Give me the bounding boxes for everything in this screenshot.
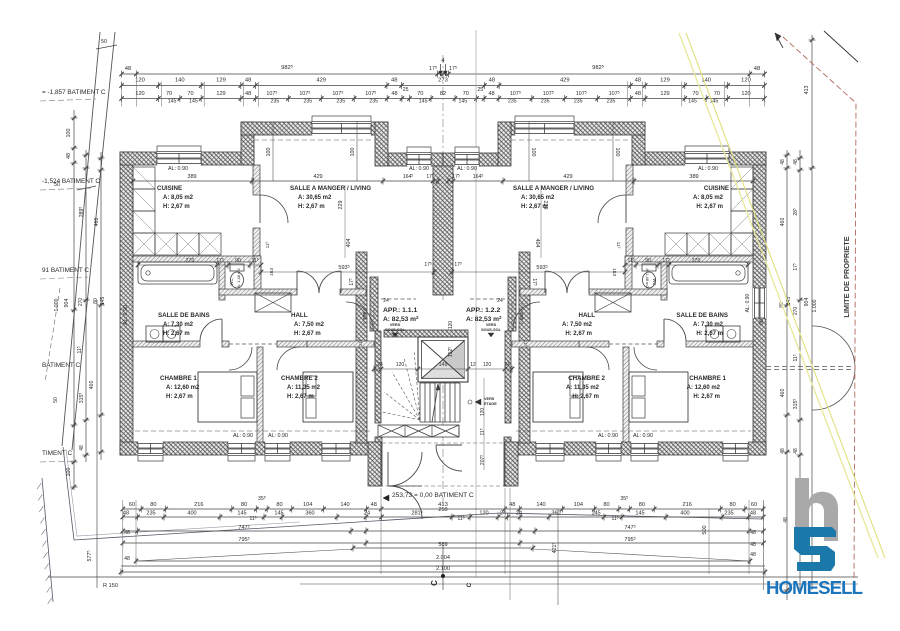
svg-text:904: 904 (64, 299, 70, 308)
living top step wall left (241, 122, 254, 165)
svg-text:145: 145 (591, 511, 600, 517)
bottom dim row 4 - 795.5 (123, 542, 763, 544)
svg-text:120: 120 (448, 321, 454, 330)
svg-text:229: 229 (338, 201, 344, 210)
svg-text:400: 400 (187, 511, 196, 517)
svg-text:24: 24 (516, 511, 522, 517)
svg-text:460: 460 (780, 389, 786, 398)
svg-text:129: 129 (660, 78, 670, 84)
svg-text:70: 70 (714, 91, 720, 97)
living ceiling dashed line left (254, 139, 375, 141)
svg-text:24: 24 (497, 298, 503, 304)
kitchen counter bottom row left (133, 233, 155, 255)
svg-text:48: 48 (783, 517, 789, 523)
svg-text:A: 11,35 m2: A: 11,35 m2 (287, 385, 321, 391)
svg-text:129: 129 (660, 91, 669, 97)
bottom extension verticals (122, 500, 124, 574)
centre axis dash-dot line (442, 55, 444, 300)
svg-text:25: 25 (403, 87, 409, 93)
svg-text:120: 120 (135, 91, 144, 97)
svg-text:AL: 0.90: AL: 0.90 (168, 166, 188, 172)
svg-text:235: 235 (271, 99, 280, 105)
svg-text:SOUS-SOL: SOUS-SOL (481, 328, 502, 332)
svg-text:70: 70 (166, 91, 172, 97)
svg-text:24: 24 (364, 511, 370, 517)
svg-text:= -1,857 BATIMENT C: = -1,857 BATIMENT C (42, 89, 106, 96)
svg-text:229: 229 (542, 201, 548, 210)
svg-text:H: 2,67 m: H: 2,67 m (565, 331, 592, 337)
left vertical dim chain outer (73, 110, 75, 490)
svg-text:145: 145 (688, 99, 697, 105)
dimension row 3 (122, 98, 765, 100)
svg-text:216: 216 (683, 502, 692, 508)
svg-text:WC: WC (229, 279, 234, 286)
kitchen counter bottom row right (731, 233, 753, 255)
living ceiling dashed line right (511, 139, 632, 141)
svg-text:145: 145 (419, 99, 428, 105)
svg-text:48: 48 (124, 530, 130, 536)
stair treads (419, 383, 421, 422)
wc left (230, 264, 244, 271)
bed chambre 1 left (198, 372, 257, 422)
cuisine-living partition left with door (253, 165, 260, 195)
vestibule entrance door arc outside (389, 486, 422, 519)
svg-text:ETAGE: ETAGE (484, 402, 497, 406)
svg-text:VERS: VERS (484, 397, 495, 401)
stair walking line with arrow (432, 384, 438, 422)
svg-text:48: 48 (793, 448, 799, 454)
svg-text:48: 48 (125, 66, 131, 72)
svg-text:120: 120 (135, 78, 145, 84)
partition wc/hall vertical (254, 256, 261, 294)
svg-text:120: 120 (396, 362, 405, 368)
living double door arcs left (297, 271, 319, 293)
svg-text:50: 50 (53, 397, 59, 403)
living top step wall right (632, 122, 645, 165)
section C bottom marker (442, 545, 444, 590)
svg-text:216: 216 (194, 502, 203, 508)
svg-text:163: 163 (611, 268, 617, 276)
svg-text:A: 7,30 m2: A: 7,30 m2 (693, 322, 724, 328)
svg-text:120: 120 (479, 511, 488, 517)
svg-text:270: 270 (793, 307, 799, 316)
living top wall right (574, 122, 645, 135)
svg-text:48: 48 (780, 448, 786, 454)
svg-text:235: 235 (146, 511, 155, 517)
svg-text:145: 145 (274, 511, 283, 517)
exterior wall right side (753, 152, 766, 455)
bath door arc left (200, 319, 222, 341)
hall dim row 593 (261, 271, 437, 273)
wc right (642, 264, 656, 271)
svg-text:104: 104 (574, 502, 583, 508)
cuisine-living partition right with door (626, 165, 633, 195)
partition hall/living wall with door opening (219, 289, 297, 295)
svg-text:70: 70 (463, 91, 469, 97)
svg-text:400: 400 (680, 511, 689, 517)
stair dashed flight lines (382, 412, 420, 420)
svg-text:235: 235 (303, 99, 312, 105)
svg-text:404: 404 (534, 239, 540, 248)
svg-text:413: 413 (804, 86, 810, 95)
svg-text:A: 30,65 m2: A: 30,65 m2 (298, 195, 332, 201)
partition chambres top wall (133, 341, 200, 347)
svg-text:104: 104 (303, 502, 312, 508)
right vertical dim line outer 413 (811, 35, 813, 590)
logo h glyph (795, 478, 838, 541)
left bottom vertical line (96, 300, 98, 588)
svg-text:AL: 0.90: AL: 0.90 (633, 433, 653, 439)
svg-text:140: 140 (340, 502, 349, 508)
svg-text:120: 120 (741, 91, 750, 97)
svg-text:80: 80 (150, 502, 156, 508)
svg-text:HOMESELL: HOMESELL (766, 577, 863, 598)
svg-text:A: 82,53 m2: A: 82,53 m2 (466, 315, 502, 323)
svg-text:H: 2,67 m: H: 2,67 m (163, 331, 190, 337)
bottom wall right apartment (748, 442, 766, 455)
svg-text:270: 270 (186, 258, 195, 264)
svg-text:235: 235 (724, 511, 733, 517)
washbasins left (146, 326, 163, 342)
extension lines top dims (121, 82, 123, 107)
stair dim row (374, 368, 512, 370)
svg-text:235: 235 (541, 99, 550, 105)
svg-text:CUISINE: CUISINE (157, 185, 182, 192)
kitchen top wall left (120, 152, 157, 165)
elevator shaft (418, 337, 468, 382)
svg-text:270: 270 (692, 258, 701, 264)
wall above elevator (384, 330, 468, 337)
svg-text:904: 904 (804, 298, 810, 307)
svg-text:24: 24 (504, 362, 510, 368)
svg-text:48: 48 (124, 556, 130, 562)
svg-text:91 BATIMENT C: 91 BATIMENT C (42, 267, 89, 274)
svg-text:R 150: R 150 (103, 583, 118, 589)
svg-text:APP.: 1.1.1: APP.: 1.1.1 (383, 307, 417, 314)
svg-text:1.000: 1.000 (812, 299, 818, 312)
right vertical dim chain inner (786, 150, 788, 600)
centre notch step wall right (498, 122, 511, 166)
svg-text:80: 80 (276, 502, 282, 508)
svg-text:CHAMBRE 1: CHAMBRE 1 (160, 375, 197, 382)
window dim row inside rooms (133, 180, 437, 182)
svg-text:SALLE DE BAINS: SALLE DE BAINS (158, 312, 210, 319)
vestibule inner dashed outline (382, 443, 504, 486)
washbasins right (723, 326, 740, 342)
svg-text:389: 389 (689, 174, 698, 180)
svg-text:163: 163 (269, 268, 275, 276)
bed chambre 2 right (533, 372, 583, 422)
svg-text:48: 48 (391, 78, 397, 84)
svg-text:48: 48 (750, 530, 756, 536)
dimension row 1 top (48 | 982.5 | 17.5) (122, 73, 765, 75)
svg-text:80: 80 (241, 502, 247, 508)
left vertical dim chain inner (100, 152, 102, 460)
svg-text:80: 80 (729, 502, 735, 508)
svg-text:H: 2,67 m: H: 2,67 m (696, 331, 723, 337)
shoreline hatched edge bottom left (42, 478, 53, 602)
living top wall left (241, 122, 312, 135)
svg-text:270: 270 (78, 298, 84, 307)
svg-text:145: 145 (458, 99, 467, 105)
svg-text:48: 48 (635, 91, 641, 97)
living top window left (312, 122, 371, 135)
window offset dims 100 (272, 122, 274, 181)
svg-text:-1,524 BATIMENT C: -1,524 BATIMENT C (42, 178, 100, 185)
svg-text:155: 155 (518, 312, 524, 320)
svg-text:90: 90 (235, 258, 241, 264)
svg-text:48: 48 (750, 542, 756, 548)
svg-text:VERS: VERS (390, 323, 401, 327)
svg-text:48: 48 (793, 159, 799, 165)
vestibule door arc 1 (388, 452, 422, 486)
svg-text:A: 1,48 m2: A: 1,48 m2 (236, 268, 241, 288)
svg-text:AL: 0.90: AL: 0.90 (123, 305, 129, 325)
svg-text:AL: 0.90: AL: 0.90 (598, 433, 618, 439)
vestibule door arc 2 (436, 445, 462, 471)
svg-text:H: 2,67 m: H: 2,67 m (693, 394, 720, 400)
elevator cross lines (422, 341, 465, 379)
living top window right (515, 122, 574, 135)
right wall window (753, 288, 766, 318)
svg-text:H: 2,67 m: H: 2,67 m (163, 204, 190, 210)
svg-text:AL: 0.90: AL: 0.90 (457, 166, 477, 172)
svg-text:LIMITE DE PROPRIETE: LIMITE DE PROPRIETE (842, 236, 851, 317)
svg-text:48: 48 (123, 511, 129, 517)
svg-text:H: 2,67 m: H: 2,67 m (294, 331, 321, 337)
svg-text:CUISINE: CUISINE (704, 185, 729, 192)
right double-dash door line (766, 366, 854, 368)
bathtub left (138, 262, 217, 284)
svg-text:A: 30,65 m2: A: 30,65 m2 (521, 195, 555, 201)
boundary strip diagonal lines left (62, 32, 100, 446)
centre notch wall right (479, 153, 498, 166)
svg-text:90: 90 (645, 258, 651, 264)
svg-text:48: 48 (371, 502, 377, 508)
exterior wall left side (120, 152, 133, 455)
hall to stair dashed opening left (381, 298, 416, 300)
svg-text:235: 235 (336, 99, 345, 105)
svg-text:25: 25 (477, 87, 483, 93)
chambre door dashes (229, 343, 277, 345)
kitchen counter column right (731, 167, 753, 189)
svg-text:235: 235 (607, 99, 616, 105)
svg-text:CHAMBRE 2: CHAMBRE 2 (568, 375, 605, 382)
svg-text:404: 404 (346, 239, 352, 248)
svg-text:H: 2,67 m: H: 2,67 m (166, 394, 193, 400)
svg-text:CHAMBRE 1: CHAMBRE 1 (689, 375, 726, 382)
svg-text:100: 100 (66, 468, 72, 477)
svg-text:48: 48 (488, 91, 494, 97)
svg-text:145: 145 (189, 99, 198, 105)
boundary polyline lower (63, 447, 74, 540)
svg-text:145: 145 (635, 511, 644, 517)
svg-text:140: 140 (536, 502, 545, 508)
svg-text:429: 429 (560, 78, 570, 84)
hall closet left (255, 293, 291, 312)
bath door arc right (664, 319, 686, 341)
svg-text:H: 2,67 m: H: 2,67 m (696, 204, 723, 210)
svg-text:48: 48 (750, 511, 756, 517)
boundary strip mid label 50 (77, 186, 96, 190)
bathtub right (669, 262, 748, 284)
svg-text:429: 429 (316, 78, 326, 84)
svg-text:48: 48 (245, 78, 251, 84)
svg-text:SALLE DE BAINS: SALLE DE BAINS (676, 312, 728, 319)
stair column left wall (370, 277, 378, 331)
svg-text:A: 1,48 m2: A: 1,48 m2 (645, 268, 650, 288)
svg-text:24: 24 (377, 362, 383, 368)
dimension row 2 (122, 85, 765, 87)
svg-text:48: 48 (780, 159, 786, 165)
svg-text:100: 100 (350, 148, 356, 157)
svg-text:A: 11,35 m2: A: 11,35 m2 (566, 385, 600, 391)
partition wc left wall (219, 262, 225, 300)
svg-text:120: 120 (480, 408, 486, 417)
svg-text:48: 48 (245, 91, 251, 97)
svg-text:A: 12,60 m2: A: 12,60 m2 (687, 385, 721, 391)
apartment-stair wall right (519, 252, 530, 443)
svg-text:48: 48 (750, 552, 756, 558)
svg-text:149: 149 (439, 362, 448, 368)
svg-text:460: 460 (89, 381, 95, 390)
svg-text:429: 429 (313, 174, 322, 180)
svg-text:250: 250 (438, 507, 447, 513)
svg-text:129: 129 (216, 78, 226, 84)
vestibule bottom corner wall right (505, 442, 518, 486)
svg-text:500: 500 (702, 525, 708, 534)
svg-text:389: 389 (187, 174, 196, 180)
bottom long lines (48, 576, 858, 578)
bottom dim row 7 - 2100 (121, 565, 765, 567)
svg-text:60: 60 (751, 502, 757, 508)
bottom windows right (723, 442, 748, 455)
section line C (475, 30, 477, 577)
svg-text:460: 460 (94, 218, 100, 227)
centre notch window right (455, 153, 479, 166)
svg-text:50: 50 (101, 39, 107, 45)
svg-text:AL: 0.90: AL: 0.90 (233, 433, 253, 439)
svg-text:235: 235 (574, 99, 583, 105)
svg-text:A: 12,60 m2: A: 12,60 m2 (166, 385, 200, 391)
svg-text:120: 120 (741, 78, 751, 84)
vestibule bottom corner wall left (368, 442, 381, 486)
red dashed property boundary (783, 37, 856, 584)
bottom dim row 5 - 589 (353, 547, 533, 549)
bottom wall left apartment (120, 442, 138, 455)
svg-text:235: 235 (369, 99, 378, 105)
svg-text:70: 70 (692, 91, 698, 97)
svg-text:360: 360 (551, 511, 560, 517)
chambre1 door arc (229, 347, 252, 370)
apartment-stair wall left (356, 252, 367, 443)
svg-text:H: 2,67 m: H: 2,67 m (572, 394, 599, 400)
stair door arc left (346, 302, 373, 329)
right vertical dim chain mid (799, 150, 801, 590)
svg-text:AL: 0.90: AL: 0.90 (745, 293, 751, 312)
svg-text:SOUS-SOL: SOUS-SOL (385, 328, 406, 332)
svg-text:253,73 = 0,00 BATIMENT C: 253,73 = 0,00 BATIMENT C (392, 492, 474, 499)
svg-text:A: 7,30 m2: A: 7,30 m2 (163, 322, 194, 328)
stair landing cross-braced boxes (378, 425, 459, 437)
kitchen top window right (685, 152, 729, 165)
svg-text:100: 100 (266, 148, 272, 157)
svg-text:TIMENT C: TIMENT C (42, 450, 72, 457)
kitchen top window left (157, 152, 201, 165)
top right black diagonal (824, 31, 858, 62)
bed chambre 2 left (303, 372, 353, 422)
logo s glyph (794, 527, 836, 571)
svg-text:VERS: VERS (486, 323, 497, 327)
svg-text:155: 155 (362, 312, 368, 320)
svg-text:120: 120 (483, 362, 492, 368)
stair door arc right (513, 302, 540, 329)
svg-text:AL: 0.90: AL: 0.90 (698, 166, 718, 172)
stair column right wall (508, 277, 516, 331)
living double door arcs right (567, 271, 589, 293)
left boundary dashed diagonal (45, 288, 60, 382)
svg-text:HALL: HALL (291, 312, 308, 319)
svg-text:SALLE A MANGER / LIVING: SALLE A MANGER / LIVING (290, 185, 371, 192)
bottom dim row 6 - 2004 (136, 560, 750, 562)
hall closet right (595, 293, 631, 312)
svg-text:70: 70 (187, 91, 193, 97)
chambre sill dashed line left (135, 430, 370, 432)
svg-text:H: 2,67 m: H: 2,67 m (298, 204, 325, 210)
svg-text:APP.: 1.2.2: APP.: 1.2.2 (466, 307, 500, 314)
svg-text:48: 48 (754, 66, 760, 72)
svg-text:24: 24 (383, 298, 389, 304)
svg-text:HALL: HALL (579, 312, 596, 319)
partition kitchen/bath left+right (133, 256, 260, 262)
svg-text:C: C (430, 580, 439, 586)
centre notch wall left (388, 153, 407, 166)
hall to stair dashed opening right (470, 298, 505, 300)
svg-text:235: 235 (508, 99, 517, 105)
svg-text:100: 100 (530, 148, 536, 157)
bath dim row (138, 264, 261, 266)
svg-text:460: 460 (780, 218, 786, 227)
svg-text:100: 100 (66, 129, 72, 138)
svg-text:CHAMBRE 2: CHAMBRE 2 (281, 375, 318, 382)
kitchen top wall right (729, 152, 766, 165)
right door swing arc (812, 326, 855, 410)
svg-text:A: 8,05 m2: A: 8,05 m2 (693, 195, 724, 201)
top right small arrow mark (775, 33, 783, 48)
kitchen counter column left (133, 167, 155, 189)
svg-text:129: 129 (216, 91, 225, 97)
svg-text:12: 12 (470, 362, 476, 368)
svg-text:H: 2,67 m: H: 2,67 m (287, 394, 314, 400)
svg-text:48: 48 (489, 78, 495, 84)
svg-text:SALLE A MANGER / LIVING: SALLE A MANGER / LIVING (513, 185, 594, 192)
svg-text:48: 48 (391, 91, 397, 97)
svg-text:100: 100 (614, 148, 620, 157)
svg-text:145: 145 (237, 511, 246, 517)
svg-text:80: 80 (603, 502, 609, 508)
svg-text:C: C (466, 582, 473, 587)
svg-text:AL: 0.90: AL: 0.90 (409, 166, 429, 172)
svg-text:145: 145 (100, 297, 106, 306)
svg-text:A: 7,50 m2: A: 7,50 m2 (294, 322, 325, 328)
svg-text:48: 48 (79, 445, 85, 451)
svg-text:360: 360 (305, 511, 314, 517)
bottom dim row 2 (123, 516, 763, 518)
svg-text:A: 8,05 m2: A: 8,05 m2 (163, 195, 194, 201)
centre notch step wall left (375, 122, 388, 166)
svg-text:60: 60 (129, 502, 135, 508)
bottom windows left (138, 442, 163, 455)
